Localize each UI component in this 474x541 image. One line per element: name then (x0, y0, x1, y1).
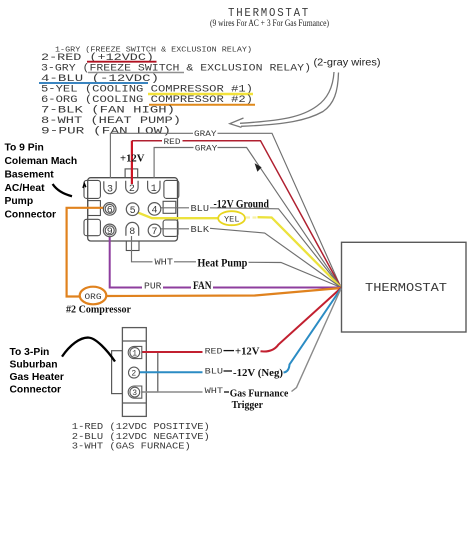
svg-text:WHT: WHT (205, 386, 224, 396)
wire blue bottom -12V (140, 289, 341, 373)
wire yellow pin5 (134, 211, 341, 288)
wire BLU pin4 (161, 208, 342, 288)
svg-text:ORG: ORG (85, 292, 102, 302)
svg-text:PUR: PUR (144, 281, 162, 292)
svg-text:9: 9 (107, 227, 113, 238)
YEL ellipse (218, 211, 245, 225)
pin 1 bottom (128, 346, 142, 358)
svg-text:+12V: +12V (235, 345, 260, 357)
wire red +12V riser pin2 (131, 141, 133, 184)
svg-text:YEL: YEL (224, 215, 240, 225)
svg-text:7: 7 (152, 227, 158, 238)
wire WHT pin8 heat pump (132, 236, 342, 288)
underline red +12VDC (87, 61, 157, 63)
svg-text:-12V Ground: -12V Ground (214, 199, 270, 211)
arrow curve 2-gray-wires (230, 72, 339, 127)
svg-text:1: 1 (151, 184, 157, 195)
svg-text:2-BLU (12VDC NEGATIVE): 2-BLU (12VDC NEGATIVE) (72, 432, 210, 442)
svg-text:4: 4 (152, 206, 158, 217)
pin 9 (103, 224, 116, 237)
svg-text:GRAY: GRAY (194, 129, 217, 139)
svg-text:-12V (Neg): -12V (Neg) (233, 367, 283, 379)
svg-text:Gas Furnance: Gas Furnance (230, 388, 289, 400)
svg-text:AC/Heat: AC/Heat (5, 183, 46, 194)
svg-text:RED: RED (164, 137, 181, 147)
dash before -12V (224, 370, 233, 372)
yellow pale dashes (246, 216, 257, 218)
svg-text:BLU: BLU (205, 367, 224, 377)
pointer curve to 9-pin connector (53, 184, 72, 196)
svg-text:GRAY: GRAY (195, 144, 218, 154)
9-pin connector side tabs (84, 180, 179, 236)
svg-text:WHT: WHT (155, 256, 174, 267)
pin 6 (103, 203, 116, 216)
svg-text:Gas Heater: Gas Heater (10, 372, 64, 383)
svg-text:THERMOSTAT: THERMOSTAT (228, 6, 310, 20)
svg-text:1-RED (12VDC POSITIVE): 1-RED (12VDC POSITIVE) (72, 422, 210, 432)
svg-text:+12V: +12V (120, 153, 144, 165)
dash before +12V (224, 350, 235, 352)
svg-text:BLK: BLK (191, 225, 210, 235)
svg-text:Connector: Connector (5, 210, 57, 221)
svg-text:(9 wires For AC + 3 For Gas Fu: (9 wires For AC + 3 For Gas Furnance) (210, 18, 329, 29)
pointer curve to 3-pin connector (62, 338, 115, 362)
wire red bottom +12V (140, 288, 341, 352)
wire gray2 from pin1 (154, 148, 341, 288)
svg-text:Heat Pump: Heat Pump (197, 258, 247, 270)
label To 3-Pin Suburban block (10, 347, 64, 396)
svg-text:3-WHT (GAS FURNACE): 3-WHT (GAS FURNACE) (72, 442, 191, 452)
pin 1 (148, 181, 160, 193)
svg-text:Trigger: Trigger (232, 399, 263, 411)
svg-text:To 9 Pin: To 9 Pin (5, 143, 44, 154)
underline gray freeze switch (88, 72, 184, 74)
svg-text:Coleman Mach: Coleman Mach (5, 156, 78, 167)
svg-text:RED: RED (205, 347, 223, 357)
wire white bottom gas furnace trigger (140, 289, 341, 393)
wire gray1 from pin3 (110, 133, 341, 287)
pin 8 (126, 222, 139, 235)
dash before Gas (224, 391, 229, 393)
label To 9 Pin Coleman Mach block (5, 143, 78, 221)
ORG ellipse (80, 287, 107, 305)
pin 2 (126, 181, 138, 193)
svg-text:9-PUR (FAN LOW): 9-PUR (FAN LOW) (41, 126, 171, 138)
svg-text:2: 2 (129, 184, 135, 195)
svg-text:THERMOSTAT: THERMOSTAT (365, 281, 447, 295)
svg-text:Basement: Basement (5, 169, 55, 180)
pin 3 (104, 181, 116, 194)
svg-text:BLU: BLU (191, 204, 210, 214)
pin 2 bottom (129, 367, 140, 378)
svg-text:8: 8 (129, 227, 135, 238)
wire purple pin9 FAN (110, 237, 341, 288)
pin 3 bottom (128, 386, 142, 398)
underline yellow compressor 1 (148, 93, 253, 95)
svg-text:Connector: Connector (10, 385, 62, 396)
wire red thin to thermostat (132, 141, 341, 288)
wire orange pin6 compressor2 (67, 208, 341, 297)
svg-text:5: 5 (130, 206, 136, 217)
svg-text:To 3-Pin: To 3-Pin (10, 347, 50, 358)
pin 4 (148, 203, 161, 216)
svg-text:Suburban: Suburban (10, 360, 58, 371)
THERMOSTAT box (342, 242, 467, 332)
svg-text:#2 Compressor: #2 Compressor (66, 304, 131, 316)
svg-text:FAN: FAN (193, 280, 212, 292)
arrowhead on gray2 diagonal (255, 163, 262, 172)
wire BLK pin7 (161, 228, 342, 287)
pointer tick at connector tab (83, 184, 86, 189)
svg-text:2: 2 (131, 370, 136, 379)
underline orange compressor 2 (149, 104, 255, 106)
svg-text:(2-gray wires): (2-gray wires) (314, 58, 381, 69)
9-pin connector body J1 (88, 169, 178, 251)
svg-text:Pump: Pump (5, 196, 34, 207)
svg-text:6: 6 (107, 206, 113, 217)
underline blue (39, 82, 148, 84)
svg-text:3: 3 (107, 185, 113, 196)
pin 5 (126, 203, 139, 216)
pin 7 (148, 224, 161, 237)
3-pin connector body J2 (112, 328, 158, 417)
svg-text:3: 3 (132, 389, 137, 398)
svg-text:1: 1 (132, 350, 137, 359)
